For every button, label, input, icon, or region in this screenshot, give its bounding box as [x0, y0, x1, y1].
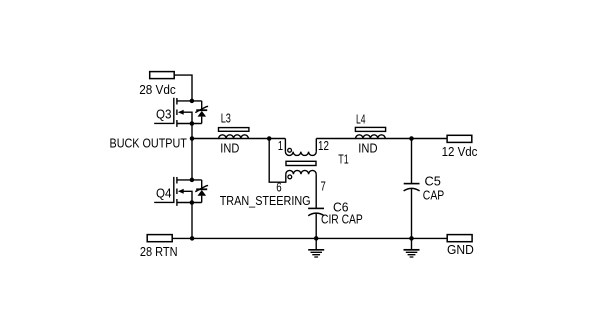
- svg-text:CIR CAP: CIR CAP: [321, 212, 363, 227]
- svg-text:Q3: Q3: [156, 106, 172, 121]
- svg-text:IND: IND: [220, 141, 239, 156]
- svg-text:L4: L4: [356, 111, 366, 126]
- svg-text:T1: T1: [338, 151, 348, 166]
- svg-text:28 RTN: 28 RTN: [140, 244, 178, 259]
- svg-text:1: 1: [278, 138, 283, 153]
- svg-text:IND: IND: [358, 140, 377, 155]
- svg-text:L3: L3: [221, 111, 231, 126]
- svg-text:Q4: Q4: [156, 185, 172, 200]
- svg-text:BUCK OUTPUT: BUCK OUTPUT: [110, 135, 188, 150]
- svg-text:TRAN_STEERING: TRAN_STEERING: [220, 193, 311, 208]
- svg-text:CAP: CAP: [423, 188, 444, 203]
- svg-text:12 Vdc: 12 Vdc: [442, 144, 478, 159]
- svg-text:GND: GND: [447, 242, 474, 257]
- svg-text:28 Vdc: 28 Vdc: [139, 82, 176, 97]
- svg-text:7: 7: [321, 179, 326, 194]
- svg-text:12: 12: [318, 138, 329, 153]
- svg-text:C5: C5: [425, 173, 441, 188]
